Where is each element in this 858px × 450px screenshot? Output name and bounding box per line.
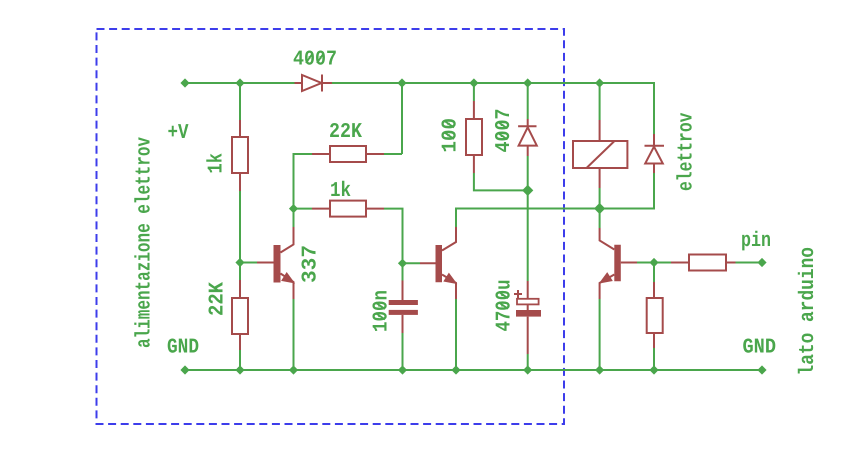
transistor Q3 mirrored [600, 228, 637, 299]
junction x240 y262 [235, 258, 244, 267]
junction ground x528 [523, 365, 532, 374]
transistor Q1 337 [257, 227, 294, 299]
wire Q3 emitter to ground [599, 299, 601, 370]
wire C2 to ground [527, 354, 529, 370]
wire Q1 base [240, 262, 257, 264]
svg-text:+V: +V [168, 122, 189, 145]
diode D1 4007 horizontal [295, 75, 333, 92]
wire Q1 emitter to ground [293, 299, 295, 370]
junction top rail x528 [523, 78, 532, 87]
wire Q3 collector [599, 209, 601, 229]
resistor R5 100 leads [473, 101, 475, 173]
junction ground x240 [235, 365, 244, 374]
svg-text:GND: GND [743, 337, 777, 360]
svg-text:4007: 4007 [493, 109, 516, 153]
resistor R3 1k body [330, 201, 366, 217]
node GND right end dot [757, 365, 766, 374]
capacitor C2 4700u polarized [514, 281, 541, 354]
relay K1 coil [573, 120, 627, 188]
wire to pin [736, 262, 763, 264]
junction x293 y208 [289, 204, 298, 213]
junction top rail x474 [469, 78, 478, 87]
svg-text:4007: 4007 [293, 49, 337, 72]
wire R7 to ground [653, 348, 655, 370]
resistor R1 1k body [232, 137, 248, 173]
wire bottom ground rail [185, 369, 762, 371]
wire 1k branch [294, 209, 403, 264]
svg-text:alimentazione elettrov: alimentazione elettrov [134, 137, 157, 348]
resistor R2 22K leads [312, 153, 384, 155]
junction x528 y190 [522, 185, 533, 196]
resistor R5 100 body [466, 119, 482, 155]
svg-text:4700u: 4700u [494, 280, 517, 332]
node pin end dot [757, 258, 766, 267]
resistor R6 body [689, 255, 726, 271]
svg-text:1k: 1k [206, 153, 229, 174]
wire relay bottom node [600, 173, 654, 209]
junction ground x456 [451, 365, 460, 374]
resistor R2 22K body [330, 146, 366, 162]
svg-text:337: 337 [300, 245, 323, 283]
resistor R4 22K body [232, 298, 248, 334]
wire R4 to ground [239, 350, 241, 370]
wire R5 top [474, 83, 528, 190]
node +V end dot [180, 78, 189, 87]
svg-text:100: 100 [440, 118, 463, 153]
dashed boundary box [97, 29, 565, 424]
transistor Q2 [420, 227, 456, 299]
wire C1 branch [403, 263, 421, 370]
junction ground x654 [649, 365, 658, 374]
svg-text:pin: pin [741, 230, 771, 253]
svg-text:100n: 100n [371, 290, 394, 332]
svg-text:22K: 22K [207, 282, 230, 316]
wire Q2 collector to relay node [456, 209, 600, 228]
junction ground x600 [595, 365, 604, 374]
resistor R7 body [647, 298, 663, 333]
resistor R3 1k leads [312, 208, 384, 210]
svg-text:lato arduino: lato arduino [797, 247, 820, 376]
junction ground x293 [289, 365, 298, 374]
svg-text:GND: GND [167, 337, 199, 360]
junction top rail x240 [235, 78, 244, 87]
junction x654 y262 [649, 258, 658, 267]
wire 22K branch [294, 83, 403, 209]
resistor R4 22K vertical leads [239, 280, 241, 350]
diode D2 4007 vertical [518, 119, 537, 156]
svg-text:1k: 1k [330, 180, 351, 203]
wire Q2 emitter to ground [455, 299, 457, 370]
wire Q3 base node [637, 263, 671, 283]
resistor R6 pin series leads [671, 262, 736, 264]
wire relay top [599, 83, 601, 120]
svg-text:22K: 22K [329, 121, 362, 144]
capacitor C1 100n [389, 281, 418, 334]
junction x600 y208 [594, 203, 605, 214]
node GND left end dot [180, 365, 189, 374]
junction top rail x600 [595, 78, 604, 87]
svg-text:elettrov: elettrov [676, 112, 699, 191]
junction x402 y263 [398, 259, 407, 268]
diode D3 elettrov snubber [645, 134, 665, 173]
resistor R7 pulldown leads [653, 282, 655, 348]
resistor R1 1k vertical leads [239, 120, 241, 191]
junction ground x402 [398, 365, 407, 374]
wire top rail [185, 83, 654, 134]
junction top rail x402 [397, 78, 406, 87]
wire D2 column [527, 83, 529, 281]
wire column x240 upper [239, 83, 241, 280]
